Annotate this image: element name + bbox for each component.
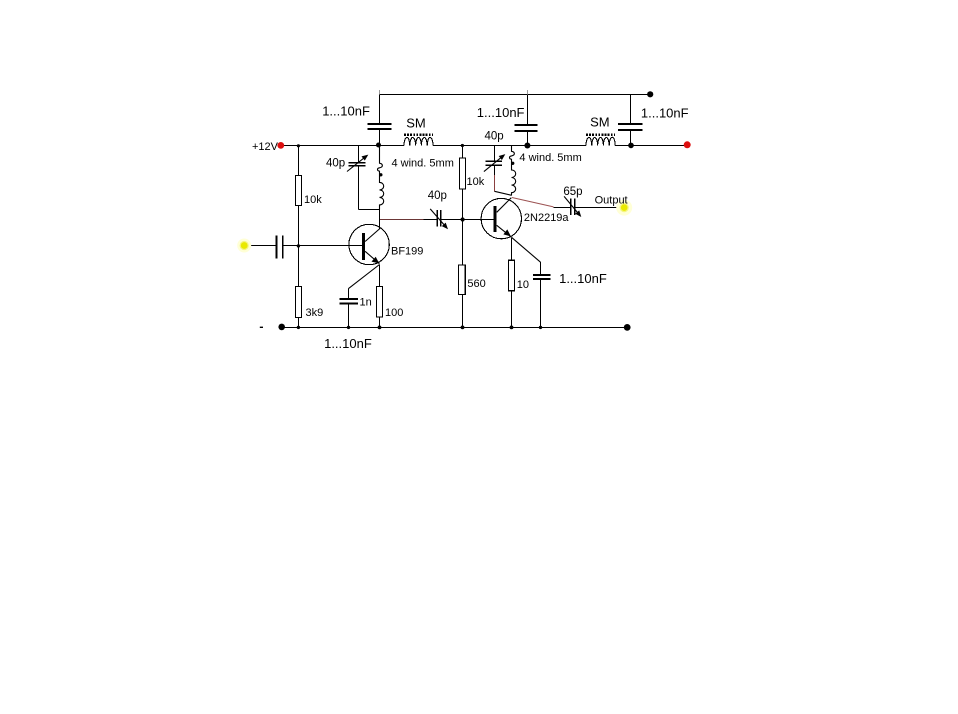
capacitor C4 40p variable: [348, 163, 365, 166]
inductor L1: [377, 146, 383, 210]
capacitor C4 arrow: [347, 158, 365, 172]
terminal ground left black: [278, 324, 285, 331]
node junction C2/bus: [524, 143, 530, 149]
svg-text:1...10nF: 1...10nF: [322, 103, 370, 118]
wire ground bus: [282, 327, 628, 329]
wire Q2 emitter to R6: [511, 237, 513, 260]
wire to C8 left plate: [554, 207, 571, 209]
transistor Q1 BF199: [349, 224, 389, 264]
terminal top right black: [647, 91, 653, 97]
svg-text:SM: SM: [406, 115, 426, 130]
node junction R4/bus: [461, 144, 464, 147]
terminal input yellow: [237, 239, 251, 253]
resistor R4 10k: [460, 158, 466, 189]
svg-text:40p: 40p: [428, 190, 447, 202]
wire black to C6 left plate: [424, 219, 437, 221]
capacitor C8 65p: [571, 198, 575, 215]
svg-text:+12V: +12V: [252, 141, 279, 153]
capacitor C6 arrow: [430, 209, 444, 225]
transistor Q1 collector stroke: [365, 228, 380, 242]
node L2 winding-start dot: [511, 162, 514, 165]
wire input cap to Q1 base: [284, 245, 362, 247]
svg-text:2N2219a: 2N2219a: [524, 212, 570, 224]
wire C7 bottom lead black part: [494, 166, 496, 176]
wire 40p C4 top lead: [358, 146, 360, 163]
wire top bus: [380, 94, 651, 96]
wire C1 bottom lead: [379, 130, 381, 146]
wire R3 bottom lead: [379, 317, 381, 328]
terminal +12V red: [277, 142, 284, 149]
svg-text:SM: SM: [590, 115, 610, 130]
wire R1 bottom to input node to R2: [298, 206, 300, 287]
svg-text:10k: 10k: [304, 194, 322, 206]
svg-text:BF199: BF199: [391, 246, 423, 258]
wire Q1 emitter to R3: [379, 265, 381, 287]
wire C7 top lead: [494, 146, 496, 162]
capacitor C4 arrowhead: [362, 155, 369, 161]
svg-text:1...10nF: 1...10nF: [324, 336, 372, 351]
wire red collector node to C8: [512, 198, 554, 207]
transistor Q1 base bar: [362, 233, 365, 260]
label minus terminal: [260, 326, 263, 328]
node L1 winding-start dot: [379, 173, 382, 176]
capacitor C7 arrow: [484, 157, 502, 171]
resistor R1 10k: [296, 176, 302, 206]
capacitor C-in: [277, 235, 283, 258]
capacitor C6 arrowhead: [442, 223, 448, 230]
svg-text:560: 560: [467, 278, 485, 290]
svg-text:1n: 1n: [360, 296, 372, 308]
svg-text:100: 100: [385, 307, 403, 319]
capacitor C1 1...10nF: [367, 124, 391, 129]
transistor Q2 collector stroke: [497, 198, 512, 213]
wire C7 bottom lead red part: [494, 175, 496, 191]
wire C3 bottom lead: [630, 131, 632, 146]
wire C9 top lead: [540, 262, 542, 274]
wire C2 bottom lead: [527, 132, 529, 146]
wire 40p C4 bottom lead: [358, 166, 360, 209]
svg-text:4 wind. 5mm: 4 wind. 5mm: [519, 152, 581, 164]
wire stub above node at C2: [527, 90, 529, 94]
inductor SM1 winding: [404, 137, 433, 145]
inductor SM1 core: [404, 133, 433, 136]
wire Q1 emitter to C5 diagonal: [349, 265, 380, 289]
wire base node to R5: [462, 220, 464, 266]
wire C5 top lead: [348, 289, 350, 299]
svg-text:40p: 40p: [326, 157, 345, 169]
node junction ground R6: [510, 326, 514, 330]
inductor SM2 core: [586, 133, 615, 136]
wire output: [575, 207, 621, 209]
capacitor C2 1...10nF: [515, 125, 538, 131]
capacitor C7 arrowhead: [499, 154, 506, 160]
resistor R2 3k9: [296, 287, 302, 318]
resistor R6 10: [509, 260, 515, 291]
transistor Q2 base bar: [494, 206, 497, 232]
transistor Q2 emitter stroke: [497, 225, 512, 237]
svg-text:1...10nF: 1...10nF: [559, 271, 607, 286]
svg-text:10k: 10k: [467, 176, 485, 188]
wire R5 bottom lead: [462, 295, 464, 328]
resistor R5 560: [459, 265, 466, 295]
wire stub above node at C1: [379, 90, 381, 94]
node junction C1/bus: [376, 143, 381, 148]
capacitor C9 1...10nF: [533, 275, 550, 279]
node junction C3/bus: [628, 143, 634, 149]
wire C5 bottom lead: [348, 304, 350, 328]
capacitor C8 arrow: [564, 196, 578, 213]
terminal right red: [684, 141, 691, 148]
transistor Q2 2N2219a: [481, 198, 521, 238]
wire +12V bus middle segment: [433, 145, 586, 147]
wire tank bottom horizontal: [359, 209, 380, 211]
wire C2 top lead: [527, 95, 529, 125]
capacitor C5 1n: [340, 299, 359, 304]
svg-text:65p: 65p: [563, 186, 582, 198]
svg-text:10: 10: [517, 279, 529, 291]
wire L1 to Q1 collector: [379, 210, 381, 229]
wire Q2 emitter to C9 diagonal: [512, 237, 541, 262]
terminal output yellow: [616, 200, 632, 216]
svg-text:40p: 40p: [485, 131, 504, 143]
svg-text:4 wind. 5mm: 4 wind. 5mm: [392, 158, 454, 170]
inductor L2: [509, 146, 515, 196]
node junction R1/bus: [297, 144, 300, 147]
wire R6 bottom lead: [511, 291, 513, 328]
resistor R3 100: [377, 287, 383, 318]
wire C7 to collector node: [495, 191, 512, 195]
capacitor C3 1...10nF: [618, 124, 642, 130]
wire R4 bottom to base node: [462, 189, 464, 219]
svg-text:Output: Output: [595, 194, 628, 206]
node junction input/R1: [297, 244, 300, 247]
svg-text:1...10nF: 1...10nF: [477, 105, 525, 120]
capacitor C6 40p variable: [437, 210, 441, 226]
wire R2 bottom lead: [298, 318, 300, 328]
wire C3 top lead: [630, 95, 632, 125]
terminal ground right black: [624, 324, 631, 331]
node junction ground C9: [539, 326, 542, 329]
wire +12V bus left segment: [281, 145, 404, 147]
node junction ground R3: [378, 326, 382, 330]
node junction base Q2: [461, 217, 465, 221]
svg-text:1...10nF: 1...10nF: [641, 106, 689, 121]
wire R1 top lead: [298, 146, 300, 176]
transistor Q1 emitter arrowhead: [372, 257, 380, 264]
node junction ground R5: [461, 326, 465, 330]
transistor Q2 emitter arrowhead: [503, 229, 511, 236]
wire input lead: [248, 245, 277, 247]
wire red Q1 collector to C6: [380, 219, 424, 221]
node junction ground R2: [297, 326, 300, 329]
svg-text:3k9: 3k9: [306, 307, 324, 319]
wire C1 top lead: [379, 95, 381, 124]
transistor Q1 emitter stroke: [365, 251, 379, 263]
wire C9 bottom lead: [540, 279, 542, 327]
wire C6 to Q2 base: [441, 219, 494, 221]
capacitor C8 arrowhead: [575, 210, 581, 217]
inductor SM2 winding: [586, 137, 615, 145]
wire R4 top lead: [462, 146, 464, 158]
node junction ground C5: [347, 326, 350, 329]
capacitor C7 40p variable: [485, 161, 502, 165]
wire +12V bus right segment: [615, 145, 687, 147]
